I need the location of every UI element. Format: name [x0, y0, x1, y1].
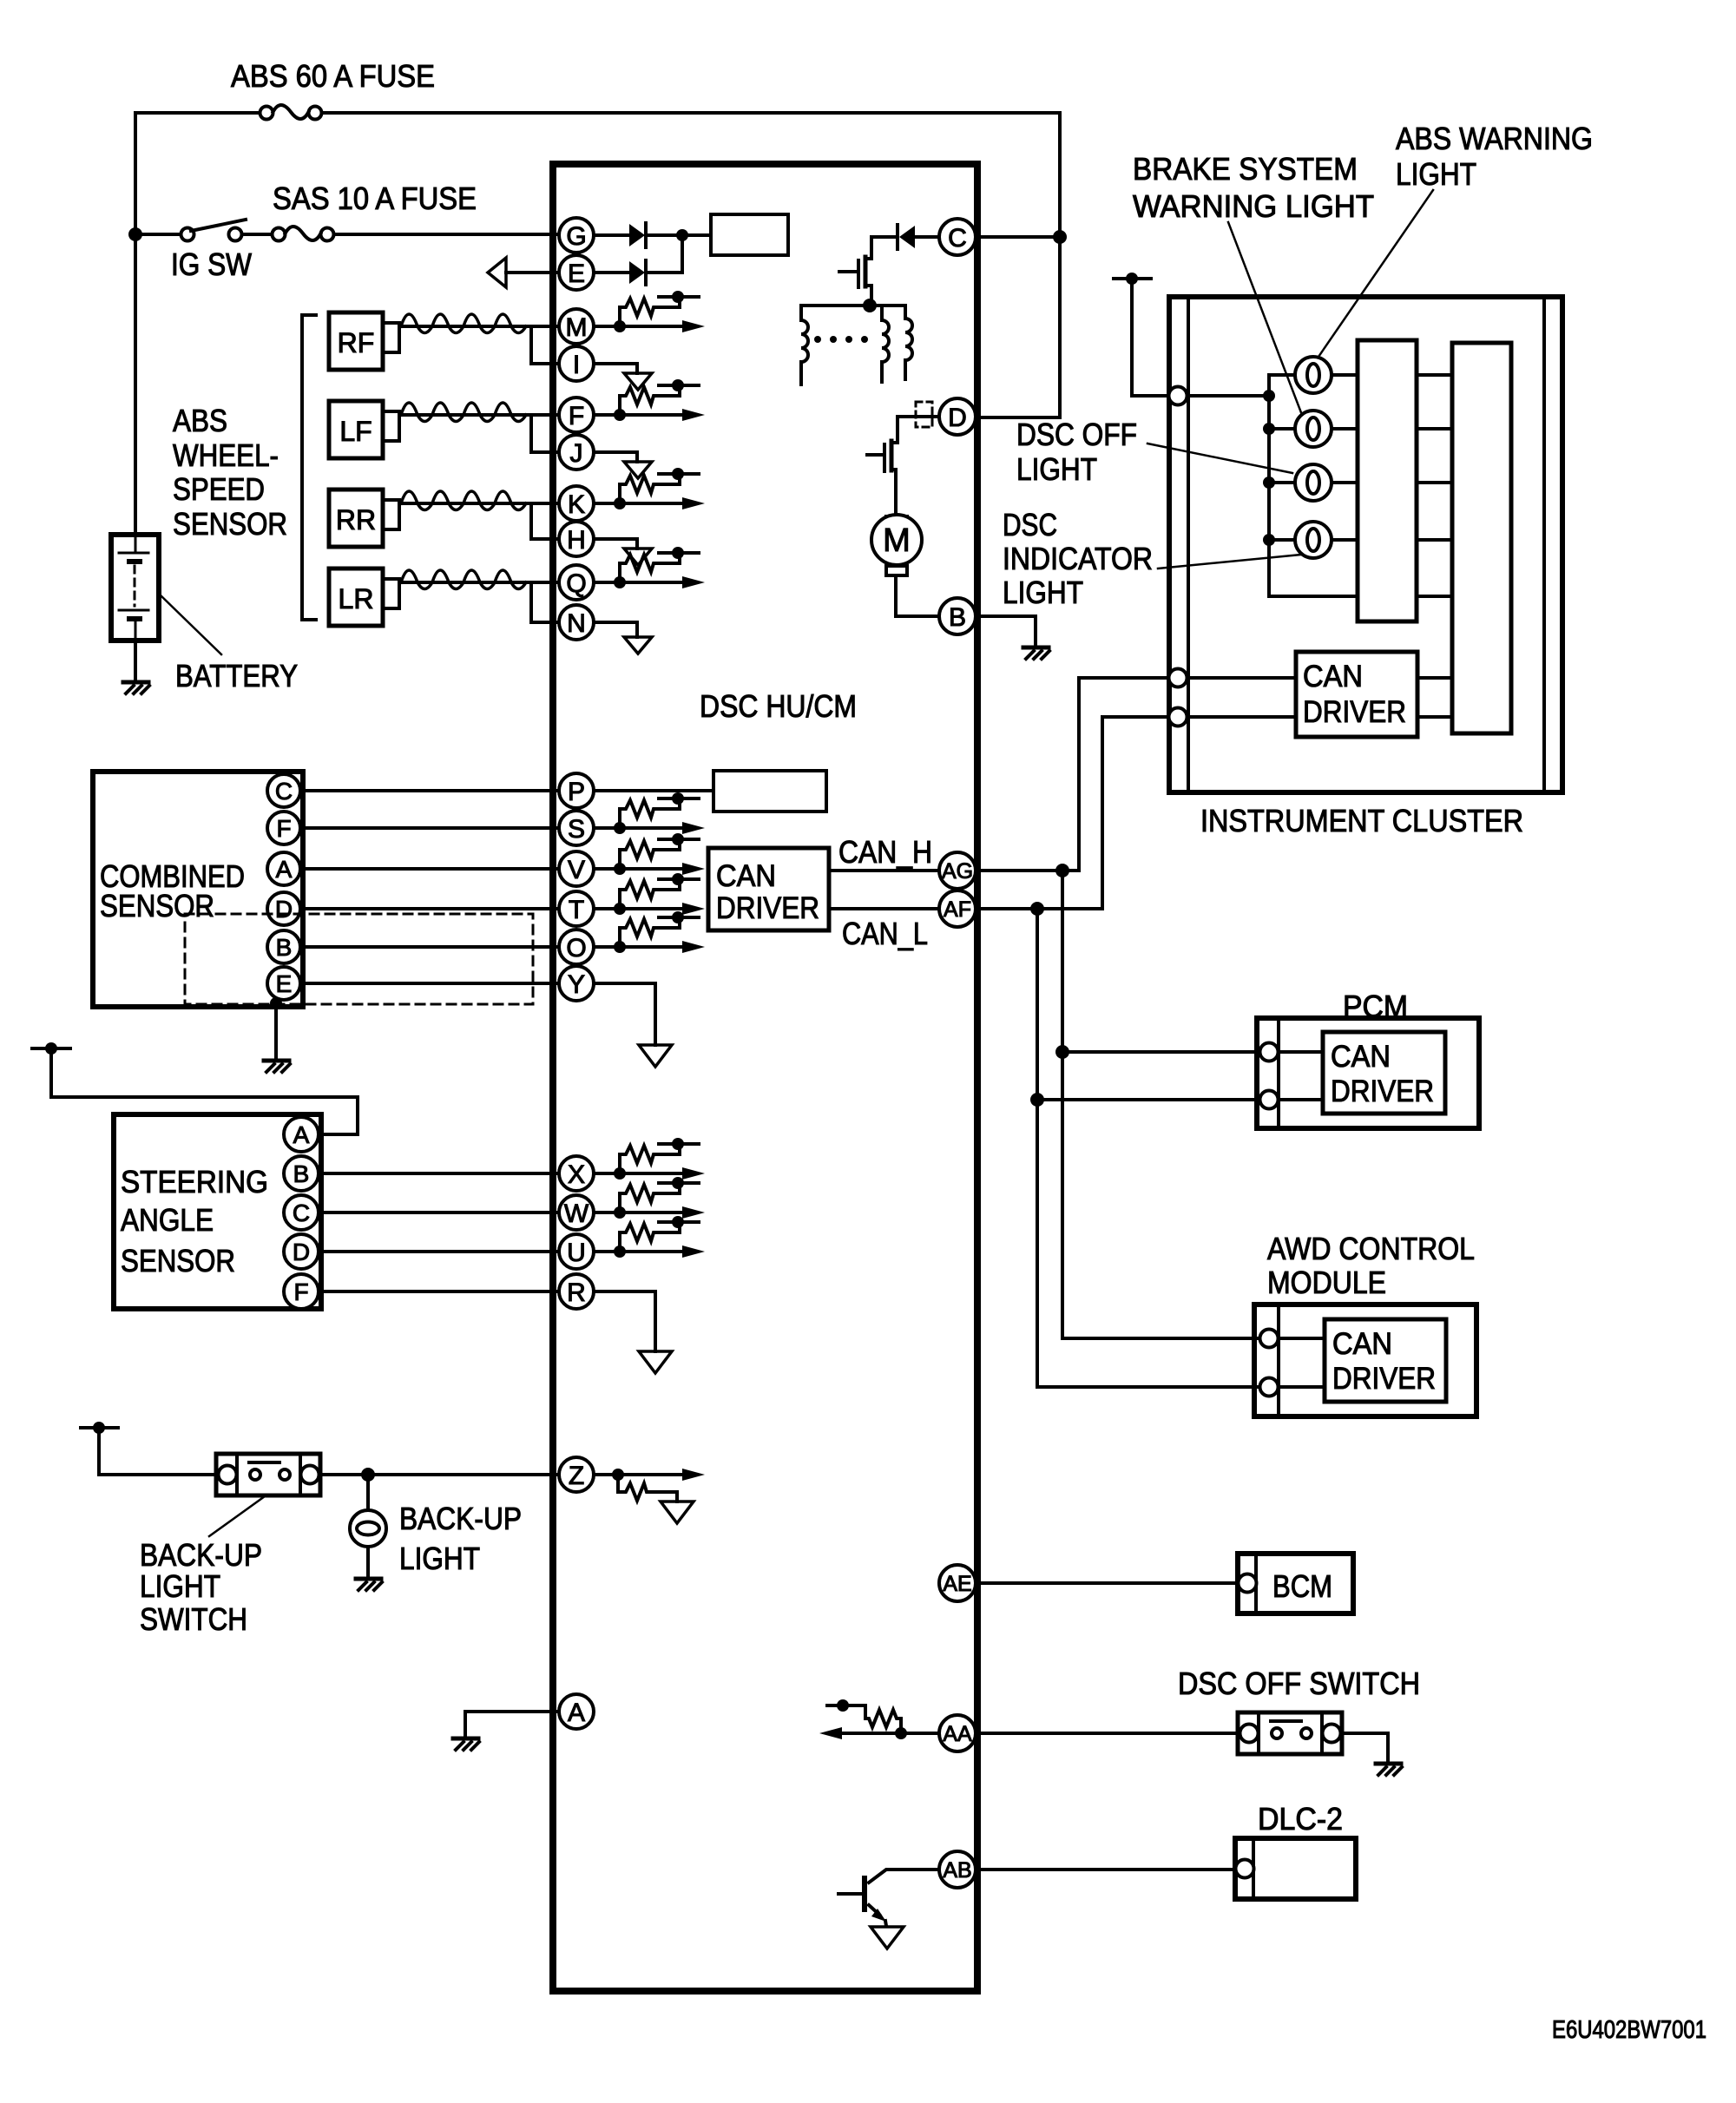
connector PCM CAN_H — [1260, 1043, 1279, 1061]
wire steering sensor D to DSC — [319, 1250, 559, 1253]
sensor LF — [329, 401, 399, 458]
terminal A (combined sensor) — [267, 852, 300, 885]
svg-text:SENSOR: SENSOR — [100, 888, 214, 923]
svg-text:B: B — [276, 934, 293, 961]
wire solenoid rail — [801, 304, 905, 307]
svg-text:J: J — [570, 439, 583, 468]
svg-text:SENSOR: SENSOR — [173, 506, 287, 542]
svg-text:H: H — [567, 526, 586, 555]
resistor pull-up cell — [614, 911, 699, 953]
sensor RR — [329, 490, 399, 547]
svg-text:ABS: ABS — [173, 403, 227, 438]
node backup power stub — [81, 1422, 118, 1434]
svg-text:BACK-UP: BACK-UP — [140, 1537, 262, 1573]
wire backup feed — [99, 1428, 216, 1475]
ground pin A — [453, 1738, 479, 1750]
svg-text:INSTRUMENT CLUSTER: INSTRUMENT CLUSTER — [1200, 803, 1523, 838]
wire RF branch to lower terminal — [531, 326, 559, 364]
MOSFET Q2 (motor relay) — [867, 441, 898, 516]
wire switch to fuse — [242, 233, 272, 236]
MOSFET Q1 (valve relay) — [839, 257, 871, 306]
wire cluster power feed — [1132, 279, 1168, 396]
terminal E (DSC pin) — [559, 255, 594, 290]
wire AWD internal — [1279, 1338, 1325, 1387]
node CAN_H PCM tap — [1055, 1045, 1069, 1059]
shield dashed box — [185, 914, 533, 1004]
terminal F (steering sensor) — [284, 1274, 319, 1309]
label ABS WARNING leader — [1318, 190, 1433, 357]
svg-text:SPEED: SPEED — [173, 471, 265, 507]
svg-text:LR: LR — [339, 583, 374, 614]
wire pin AA to DSC OFF switch — [976, 1732, 1238, 1735]
wire CAN_H from AG — [976, 678, 1168, 871]
terminal D (steering sensor) — [284, 1234, 319, 1269]
svg-text:E: E — [568, 260, 585, 288]
svg-text:E6U402BW7001: E6U402BW7001 — [1552, 2016, 1706, 2044]
wire steering sensor F to DSC — [319, 1290, 559, 1293]
diode on pin E — [594, 260, 682, 285]
svg-text:F: F — [569, 402, 584, 430]
bracket sensor group — [302, 315, 316, 620]
svg-text:M: M — [883, 522, 911, 559]
resistor pull-up cell — [614, 547, 699, 588]
terminal Q (DSC pin) — [559, 565, 594, 600]
terminal S (DSC pin) — [559, 811, 594, 845]
wire CAN_H to PCM — [1062, 1050, 1259, 1054]
wire backup light to ground — [366, 1547, 370, 1579]
lamp DSC OFF lamp — [1295, 464, 1332, 501]
svg-text:CAN_H: CAN_H — [838, 834, 932, 870]
steering angle sensor box — [114, 1114, 321, 1309]
wire tap to backup light — [366, 1475, 370, 1510]
svg-text:DSC HU/CM: DSC HU/CM — [700, 688, 857, 724]
wire steering cell y=1442 — [594, 1245, 705, 1258]
connector DLC-2 — [1236, 1860, 1254, 1878]
wire RR branch to lower terminal — [531, 503, 559, 539]
svg-text:AA: AA — [943, 1722, 972, 1746]
op-amp CAN DRIVER (PCM) — [1323, 1032, 1445, 1114]
svg-text:T: T — [569, 896, 584, 924]
terminal F (DSC pin) — [559, 398, 594, 432]
terminal M (DSC pin) — [559, 309, 594, 344]
ground DSC OFF switch — [1376, 1764, 1402, 1775]
svg-text:DSC: DSC — [1003, 507, 1057, 542]
connector cluster CAN_H — [1169, 669, 1187, 687]
wire cluster CAN_L — [1187, 715, 1452, 719]
svg-text:DRIVER: DRIVER — [1303, 695, 1406, 729]
terminal E (combined sensor) — [267, 967, 300, 1000]
wire logic link y=494 — [1417, 427, 1452, 430]
wire cluster lamp bus feed — [1187, 394, 1269, 398]
svg-text:K: K — [568, 490, 585, 519]
op-amp CAN DRIVER (DSC) — [708, 848, 829, 930]
wire pin R to ground — [594, 1291, 655, 1351]
wire pin Z sense — [594, 1469, 705, 1481]
svg-text:E: E — [276, 970, 293, 997]
node steering power stub — [32, 1042, 70, 1055]
wire combined-sensor cell y=1047 — [594, 903, 705, 915]
op-amp CAN DRIVER (AWD) — [1325, 1319, 1446, 1402]
terminal AA (DSC pin) — [939, 1715, 976, 1751]
wire fuse to terminal G — [334, 233, 559, 236]
wire CAN_L from AF — [976, 717, 1168, 909]
svg-text:DRIVER: DRIVER — [716, 891, 819, 925]
svg-text:A: A — [568, 1699, 585, 1727]
wire battery vertical bus — [134, 113, 137, 535]
transformer solenoid coils — [801, 306, 912, 384]
wire sense return y=621 — [594, 539, 637, 549]
wire combined-sensor cell y=1091 — [594, 941, 705, 953]
lamp brake system warning lamp — [1295, 411, 1332, 447]
wire lamp feed y=494 — [1269, 427, 1358, 430]
svg-text:BATTERY: BATTERY — [175, 658, 298, 693]
ground battery — [123, 682, 149, 693]
terminal W (DSC pin) — [559, 1195, 594, 1230]
wire CAN_L down leg — [1037, 909, 1259, 1387]
wire pin Y to ground — [594, 983, 655, 1045]
svg-text:DRIVER: DRIVER — [1332, 1362, 1436, 1396]
wire sense return y=521 — [594, 452, 637, 462]
node backup light tap — [361, 1468, 375, 1482]
svg-text:INDICATOR: INDICATOR — [1003, 541, 1153, 576]
svg-text:LIGHT: LIGHT — [399, 1541, 480, 1576]
svg-text:C: C — [948, 224, 967, 253]
label BRAKE SYSTEM leader — [1228, 222, 1302, 415]
terminal N (DSC pin) — [559, 605, 594, 640]
svg-text:A: A — [293, 1121, 310, 1148]
terminal B (steering sensor) — [284, 1156, 319, 1191]
wire CAN driver to AG — [829, 869, 938, 872]
wire pin D to MOSFET — [898, 417, 939, 443]
svg-text:LIGHT: LIGHT — [1003, 575, 1083, 610]
wire PCM internal — [1279, 1052, 1323, 1100]
wire pin B to ground — [976, 616, 1036, 647]
ground Z triangle — [661, 1502, 694, 1523]
node solenoid supply — [863, 299, 877, 312]
svg-text:RF: RF — [338, 327, 375, 358]
svg-text:CAN: CAN — [716, 859, 776, 893]
switch IG SW — [181, 220, 247, 241]
connector AWD CAN_L — [1260, 1378, 1279, 1397]
svg-text:LIGHT: LIGHT — [140, 1568, 220, 1604]
svg-text:CAN: CAN — [1331, 1040, 1391, 1074]
terminal C (DSC pin) — [939, 219, 976, 255]
wire pin A to ground — [465, 1712, 559, 1738]
wire switch to pin Z — [320, 1473, 559, 1476]
svg-text:SENSOR: SENSOR — [121, 1243, 235, 1278]
terminal J (DSC pin) — [559, 435, 594, 470]
svg-text:IG SW: IG SW — [171, 246, 252, 282]
clamp triangle — [624, 462, 652, 478]
svg-text:DRIVER: DRIVER — [1331, 1075, 1434, 1108]
svg-text:SAS 10 A FUSE: SAS 10 A FUSE — [273, 181, 477, 216]
svg-text:I: I — [573, 351, 580, 379]
wire CAN_H down leg — [1062, 871, 1259, 1338]
terminal I (DSC pin) — [559, 346, 594, 381]
ground pin N triangle — [624, 637, 652, 654]
wire combined sensor A to DSC — [300, 867, 559, 871]
svg-text:Q: Q — [566, 569, 586, 598]
svg-text:C: C — [293, 1199, 310, 1226]
wire LF branch to lower terminal — [531, 415, 559, 452]
svg-text:D: D — [293, 1239, 310, 1265]
connector PCM CAN_L — [1260, 1091, 1279, 1109]
svg-text:AB: AB — [943, 1858, 971, 1883]
wire pin AE to BCM — [976, 1581, 1239, 1585]
resistor pull-up cell — [614, 468, 699, 509]
connector cluster power — [1169, 387, 1187, 405]
svg-text:C: C — [275, 778, 293, 805]
terminal AE (DSC pin) — [939, 1565, 976, 1601]
wire battery feed drop — [1058, 113, 1062, 417]
wire lamp feed y=622 — [1269, 538, 1358, 542]
resistor pull-up cell — [614, 291, 699, 332]
wire logic link y=432 — [1417, 373, 1452, 377]
wire lamp bus — [1269, 375, 1358, 596]
resistor pull-up cell — [614, 379, 699, 421]
op-amp CAN DRIVER (cluster) — [1296, 652, 1417, 737]
svg-text:S: S — [568, 815, 585, 844]
ground AB triangle — [871, 1927, 904, 1949]
terminal A (steering sensor) — [284, 1117, 319, 1152]
node shield ground tap — [270, 997, 282, 1009]
resistor pull-up cell — [614, 1177, 699, 1219]
terminal AF (DSC pin) — [939, 890, 976, 927]
svg-text:AF: AF — [944, 897, 971, 922]
svg-text:LF: LF — [339, 416, 372, 447]
clamp triangle — [624, 373, 652, 390]
resistor pull-up cell — [614, 833, 699, 875]
regulator box (unlabelled) — [711, 214, 788, 255]
wire RR twisted pair coil — [399, 491, 559, 510]
svg-text:MODULE: MODULE — [1267, 1265, 1386, 1300]
svg-text:DSC OFF SWITCH: DSC OFF SWITCH — [1178, 1666, 1420, 1701]
terminal D (DSC pin) — [939, 398, 976, 435]
ground pin R triangle — [639, 1351, 672, 1373]
node cluster power stub — [1114, 273, 1151, 285]
wire pin N to ground — [594, 622, 637, 637]
wire pin D to feed — [976, 416, 1060, 419]
terminal T (DSC pin) — [559, 891, 594, 926]
svg-text:ABS 60 A FUSE: ABS 60 A FUSE — [231, 58, 435, 94]
sensor LR — [329, 568, 399, 626]
svg-text:B: B — [293, 1160, 310, 1187]
fuse ABS 60 A — [260, 105, 322, 120]
resistor pull-up cell — [614, 873, 699, 915]
connector cluster CAN_L — [1169, 708, 1187, 726]
resistor pull-up cell — [614, 1138, 699, 1180]
svg-text:CAN: CAN — [1303, 660, 1363, 693]
terminal H (DSC pin) — [559, 522, 594, 556]
wire sense output y=478 — [594, 409, 705, 421]
wire combined sensor E to DSC — [300, 982, 559, 985]
wire battery to ground — [134, 641, 137, 682]
wire logic link y=687 — [1417, 595, 1452, 598]
ground shield — [264, 1061, 290, 1072]
svg-text:W: W — [564, 1199, 589, 1228]
wire combined sensor C to DSC — [300, 789, 559, 792]
wire sense return y=419 — [594, 364, 637, 373]
AWD control module box — [1254, 1305, 1476, 1416]
connector BCM — [1239, 1574, 1257, 1593]
resistor pull-up cell — [614, 1216, 699, 1258]
ground pin B — [1023, 647, 1049, 659]
terminal K (DSC pin) — [559, 486, 594, 521]
wire combined sensor D to DSC — [300, 907, 559, 910]
terminal AB (DSC pin) — [939, 1851, 976, 1888]
wire steering sensor B to DSC — [319, 1172, 559, 1175]
terminal A (DSC pin) — [559, 1694, 594, 1729]
sensor RF — [329, 312, 399, 370]
svg-text:D: D — [275, 896, 293, 923]
lamp DSC indicator lamp — [1295, 522, 1332, 558]
svg-text:B: B — [949, 603, 966, 632]
label BACK-UP LIGHT SWITCH leader — [209, 1496, 265, 1536]
terminal C (combined sensor) — [267, 774, 300, 807]
node CAN_H junction — [1055, 864, 1069, 877]
svg-text:LIGHT: LIGHT — [1016, 451, 1097, 487]
wire sense output y=376 — [594, 320, 705, 332]
ground backup light — [356, 1579, 382, 1590]
wire motor to pin B — [896, 575, 939, 616]
terminal B (combined sensor) — [267, 930, 300, 963]
label DSC INDICATOR leader — [1158, 555, 1301, 568]
wire combined-sensor cell y=1001 — [594, 863, 705, 875]
svg-text:ABS WARNING: ABS WARNING — [1396, 121, 1593, 156]
resistor pull-up on AA — [827, 1699, 907, 1739]
svg-text:A: A — [276, 856, 293, 883]
terminal C (steering sensor) — [284, 1195, 319, 1230]
svg-text:V: V — [568, 856, 585, 884]
svg-text:CAN: CAN — [1332, 1327, 1392, 1361]
wire lamp feed y=556 — [1269, 481, 1358, 484]
svg-text:D: D — [948, 404, 967, 432]
terminal V (DSC pin) — [559, 851, 594, 886]
node battery junction — [128, 227, 142, 241]
svg-text:RR: RR — [336, 504, 376, 536]
clamp triangle — [624, 549, 652, 565]
terminal O (DSC pin) — [559, 930, 594, 964]
svg-text:WHEEL-: WHEEL- — [173, 437, 279, 473]
wire DSC OFF switch to ground — [1342, 1733, 1388, 1764]
terminal AG (DSC pin) — [939, 852, 976, 889]
wire RF twisted pair coil — [399, 314, 559, 333]
wire battery + feed (top) — [135, 111, 1060, 115]
diode on pin G — [594, 223, 682, 247]
svg-text:U: U — [567, 1239, 586, 1267]
svg-text:AWD CONTROL: AWD CONTROL — [1267, 1231, 1475, 1266]
node CAN_L PCM tap — [1030, 1093, 1044, 1107]
node G diode junction — [676, 229, 688, 241]
svg-text:SWITCH: SWITCH — [140, 1601, 247, 1637]
svg-text:DLC-2: DLC-2 — [1258, 1801, 1343, 1837]
terminal B (DSC pin) — [939, 598, 976, 634]
instrument cluster box — [1169, 297, 1562, 792]
arrow pin E external feed — [488, 258, 559, 287]
DSC HU/CM box — [553, 164, 977, 1991]
svg-text:G: G — [566, 222, 586, 251]
svg-text:LIGHT: LIGHT — [1396, 156, 1476, 192]
wire cluster CAN_H — [1187, 676, 1452, 680]
svg-text:WARNING LIGHT: WARNING LIGHT — [1133, 188, 1374, 224]
wire LR twisted pair coil — [399, 570, 559, 589]
wire diode junction to regulator — [682, 235, 711, 273]
svg-text:M: M — [566, 313, 588, 342]
connector AWD CAN_H — [1260, 1330, 1279, 1348]
svg-text:DSC OFF: DSC OFF — [1016, 417, 1137, 452]
svg-text:BRAKE SYSTEM: BRAKE SYSTEM — [1133, 151, 1358, 187]
terminal G (DSC pin) — [559, 218, 594, 253]
wire sense output y=671 — [594, 576, 705, 588]
wire pin AB to DLC-2 — [976, 1868, 1236, 1871]
wire lamp feed y=432 — [1269, 373, 1358, 377]
wire pin AA sense (arrow left) — [819, 1727, 937, 1739]
terminal P (DSC pin) — [559, 773, 594, 808]
svg-text:AE: AE — [943, 1572, 971, 1596]
svg-text:X: X — [568, 1160, 585, 1189]
terminal U (DSC pin) — [559, 1234, 594, 1269]
wire combined sensor B to DSC — [300, 945, 559, 949]
cluster logic block 2 — [1452, 343, 1511, 733]
terminal F (combined sensor) — [267, 812, 300, 844]
switch BACK-UP LIGHT SWITCH — [216, 1454, 320, 1495]
switch DSC OFF SWITCH — [1238, 1712, 1342, 1754]
terminal X (DSC pin) — [559, 1156, 594, 1191]
wire pin P to regulator box — [594, 789, 713, 792]
svg-text:STEERING: STEERING — [121, 1164, 268, 1199]
cluster logic block 1 — [1358, 340, 1417, 621]
label DSC OFF leader — [1147, 444, 1292, 473]
PCM box — [1257, 1018, 1479, 1128]
svg-text:R: R — [567, 1278, 586, 1307]
wire shield to ground — [274, 1003, 278, 1061]
terminal R (DSC pin) — [559, 1274, 594, 1309]
fuse SAS 10 A — [273, 227, 334, 241]
svg-text:BACK-UP: BACK-UP — [399, 1501, 522, 1536]
regulator box on P (unlabelled) — [713, 771, 826, 812]
wire pin C to battery feed — [976, 235, 1060, 239]
dashed connector mark near D — [916, 402, 932, 427]
battery — [111, 535, 159, 641]
motor M (DSC pump) — [871, 515, 922, 575]
svg-text:F: F — [293, 1278, 308, 1305]
svg-text:N: N — [567, 609, 586, 638]
label BATTERY leader — [160, 595, 221, 654]
wire combined sensor F to DSC — [300, 826, 559, 830]
svg-text:CAN_L: CAN_L — [842, 916, 928, 951]
svg-text:Z: Z — [569, 1462, 584, 1490]
svg-text:P: P — [568, 778, 585, 806]
lamp BACK-UP LIGHT — [350, 1510, 386, 1547]
terminal Y (DSC pin) — [559, 966, 594, 1001]
wire steering cell y=1352 — [594, 1167, 705, 1180]
terminal Z (DSC pin) — [559, 1457, 594, 1492]
wire steering power feed — [51, 1048, 358, 1134]
combined sensor box — [93, 772, 303, 1007]
wire logic link y=556 — [1417, 481, 1452, 484]
svg-text:F: F — [276, 815, 291, 842]
lamp ABS warning lamp — [1295, 357, 1332, 393]
wire CAN driver to AF — [829, 907, 939, 910]
DLC-2 box — [1235, 1838, 1356, 1899]
svg-text:O: O — [566, 934, 586, 963]
resistor pull-up cell — [614, 792, 699, 834]
diode on pin C — [871, 225, 941, 259]
wire CAN_L to PCM — [1037, 1098, 1259, 1101]
wire LF twisted pair coil — [399, 403, 559, 422]
svg-text:ANGLE: ANGLE — [121, 1202, 214, 1238]
BCM box — [1238, 1554, 1353, 1613]
